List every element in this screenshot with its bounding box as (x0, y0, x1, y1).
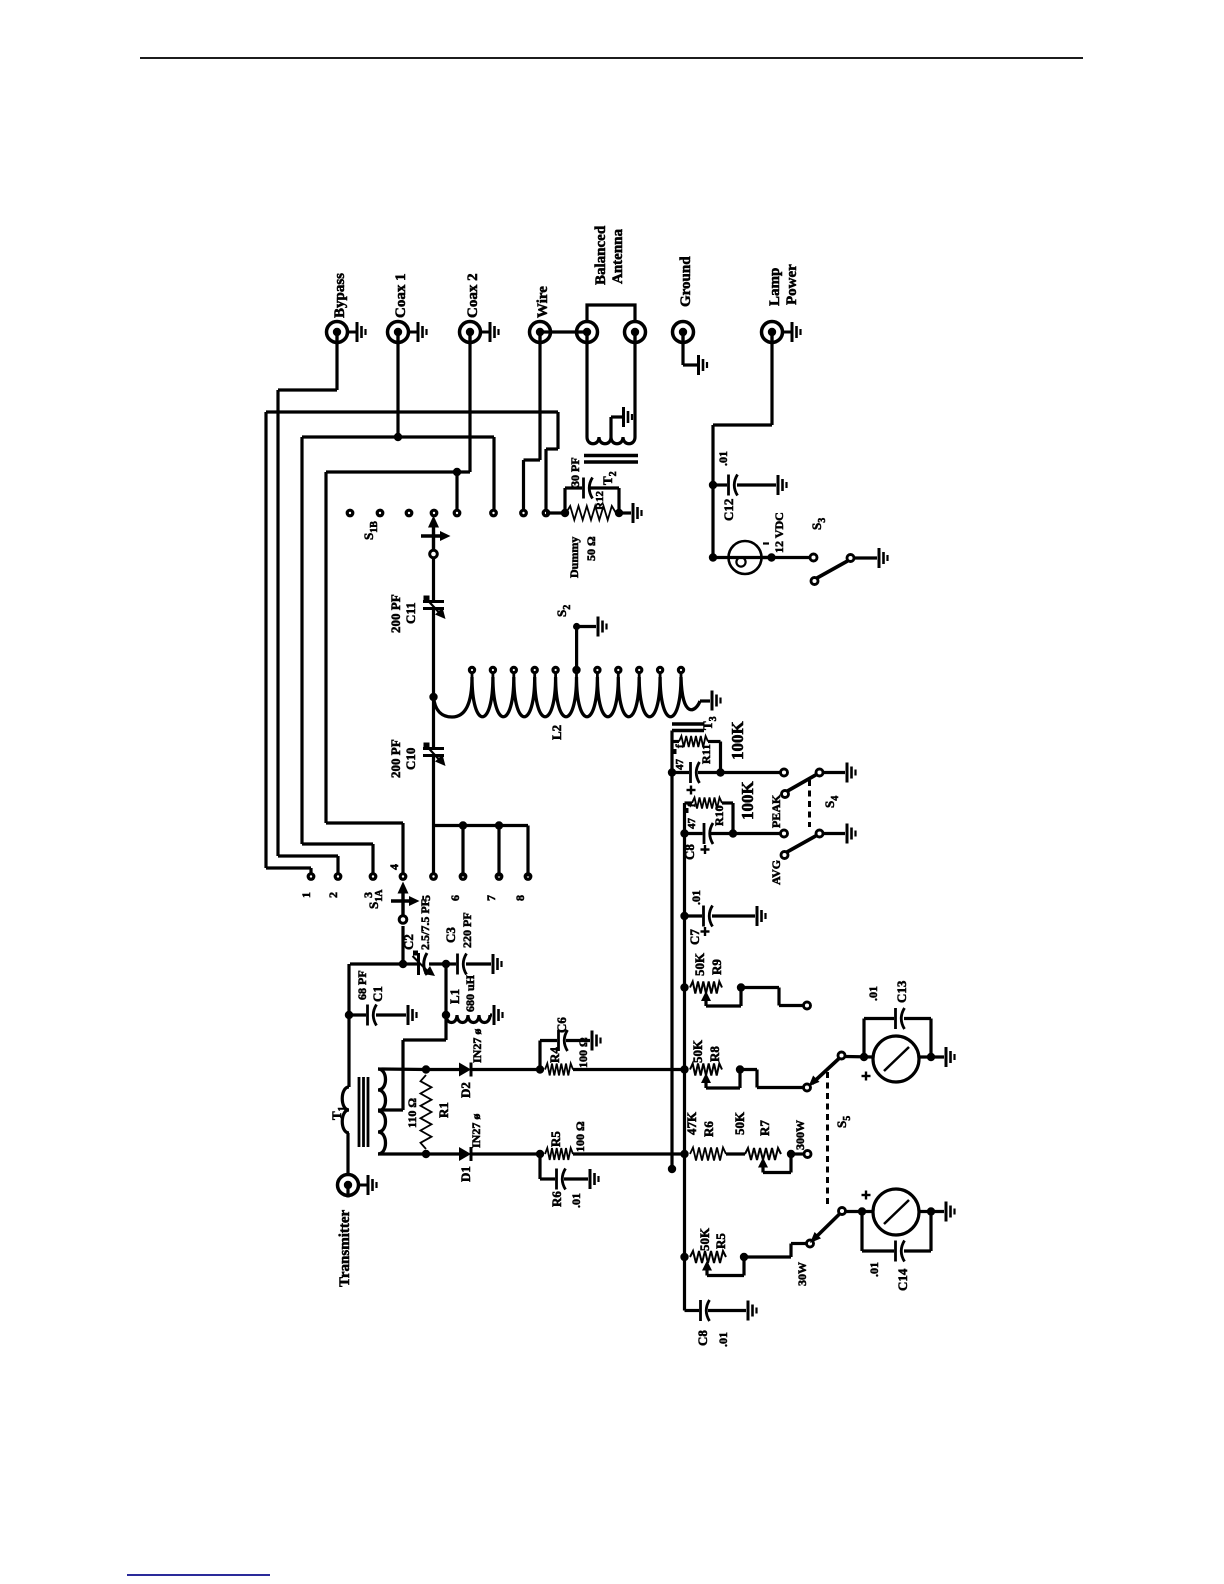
node dummy left (561, 509, 569, 517)
ground at C7 (756, 906, 759, 926)
svg-text:R5: R5 (548, 1131, 563, 1147)
capacitor 47uf peak (689, 762, 692, 783)
svg-text:R12: R12 (594, 491, 606, 510)
label plus meter2 (862, 1194, 871, 1196)
meter M2 (873, 1189, 919, 1235)
svg-text:50 Ω: 50 Ω (584, 536, 598, 561)
wire S1A 5-8 common bus (434, 824, 529, 827)
wire L2 end to ground (700, 699, 710, 702)
svg-text:30 PF: 30 PF (568, 457, 582, 487)
svg-text:PEAK: PEAK (769, 794, 783, 828)
ground at C3 (492, 954, 495, 974)
svg-text:Ground: Ground (678, 256, 694, 307)
node D2/R4/C6 (536, 1065, 544, 1073)
transformer T2 core (584, 454, 638, 457)
transformer T3 core (672, 722, 704, 725)
potentiometer R7 50K (745, 1148, 781, 1160)
svg-text:110 Ω: 110 Ω (405, 1098, 419, 1128)
svg-text:L2: L2 (549, 725, 564, 740)
svg-text:50K: 50K (690, 1039, 705, 1063)
bottom-left blue underline (127, 1574, 270, 1576)
switch S3 contact (810, 554, 817, 561)
wire S1B-8 to dummy load (546, 511, 565, 514)
node C14 left (858, 1207, 866, 1215)
svg-text:.01: .01 (569, 1193, 583, 1208)
switch S4 avg contact (781, 830, 788, 837)
wire bus net1 (S1B-8 / dummy to S1A-1) (266, 410, 558, 413)
svg-text:R5: R5 (713, 1233, 728, 1249)
wire L1 node jog to T1 center tap (403, 1038, 446, 1041)
node C7 (680, 912, 688, 920)
svg-text:2: 2 (326, 892, 340, 898)
node R6 47K (680, 1150, 688, 1158)
capacitor C12 .01 (713, 483, 727, 486)
svg-text:300W: 300W (793, 1120, 807, 1150)
transformer T1 secondary (378, 1069, 386, 1154)
capacitor C7 .01 (685, 914, 703, 917)
svg-text:Balanced: Balanced (593, 225, 609, 285)
wire R8 output to S5 (740, 1068, 757, 1071)
node S1A-7 branch (495, 821, 503, 829)
connector J1 Bypass (335, 332, 338, 345)
switch S5 meter1 throw contact (804, 1084, 811, 1091)
svg-text:12 VDC: 12 VDC (772, 512, 786, 553)
node S1A-6 branch (459, 821, 467, 829)
svg-text:R10: R10 (712, 805, 726, 826)
ground at S3 (878, 548, 881, 568)
capacitor C1 68 PF (349, 1013, 366, 1016)
switch S1B wiper (430, 550, 438, 558)
svg-text:T3: T3 (700, 716, 719, 730)
svg-text:68 PF: 68 PF (355, 970, 369, 1000)
svg-text:AVG: AVG (769, 860, 783, 885)
node lamp right (767, 553, 775, 561)
wire S5 to meter2 (846, 1210, 874, 1213)
wire S1B wiper line down (432, 558, 435, 601)
resistor R12 dummy 50 ohm (566, 506, 616, 520)
wire S1A wiper to C2 node (401, 926, 404, 964)
wire dummy to ground (619, 511, 631, 514)
svg-text:47K: 47K (684, 1111, 699, 1135)
node S1B-5 branch (453, 468, 461, 476)
capacitor C10 200 PF variable (423, 747, 444, 750)
wire bus B down (683, 834, 686, 1311)
wire meter1 to ground (919, 1055, 944, 1058)
node C12 (709, 481, 717, 489)
svg-text:7: 7 (484, 895, 498, 901)
svg-text:S4: S4 (822, 796, 841, 808)
svg-text:Antenna: Antenna (610, 228, 626, 284)
capacitor C14 .01 loop (860, 1212, 863, 1252)
svg-text:R9: R9 (709, 959, 724, 975)
resistor R1 110 ohm (421, 1075, 432, 1149)
wire balanced bridge arch (587, 305, 635, 322)
switch S4 avg arm (781, 852, 788, 859)
svg-text:IN27 ø: IN27 ø (470, 1029, 484, 1063)
wire Ground jack to ground (681, 332, 684, 365)
wire meter2 to ground (919, 1210, 944, 1213)
diode D2 IN27 (459, 1063, 471, 1077)
wire R5 output to S5 (744, 1255, 791, 1258)
wire C8 .01 branch (685, 1309, 700, 1312)
svg-text:2.5/7.5 PF: 2.5/7.5 PF (418, 899, 432, 950)
svg-text:D1: D1 (458, 1166, 473, 1182)
svg-text:.01: .01 (866, 986, 880, 1001)
wire bus A from T3 (670, 731, 673, 1170)
connector J7 Ground (681, 332, 684, 345)
wire S4 peak to ground (824, 771, 846, 774)
resistor R6 47K (690, 1148, 726, 1161)
capacitor R6 .01 (555, 1169, 558, 1190)
ground at meter2 (945, 1202, 948, 1222)
wire bus Bypass to S1A-2 (276, 390, 279, 856)
node C13 right (927, 1053, 935, 1061)
svg-text:Coax 1: Coax 1 (393, 273, 409, 318)
svg-text:200 PF: 200 PF (388, 594, 403, 633)
node C13 left (860, 1053, 868, 1061)
node R5 50K (680, 1253, 688, 1261)
wire 30PF branch rect (563, 488, 566, 513)
connector Transmitter (346, 1185, 349, 1198)
switch S5 meter2 arm (839, 1208, 846, 1215)
svg-text:R1: R1 (436, 1102, 451, 1118)
svg-text:6: 6 (448, 895, 462, 901)
wire C6 branch (538, 1041, 541, 1070)
ground at L2 end (711, 691, 714, 711)
potentiometer R9 50K (690, 982, 722, 994)
ground at R6 cap (589, 1169, 592, 1189)
node L2 top (429, 693, 437, 701)
wire T2 center tap to ground (609, 417, 612, 437)
connector J4 Wire (538, 332, 541, 345)
capacitor C8 .01 (699, 1300, 702, 1321)
potentiometer R5 50K (690, 1251, 726, 1263)
wire Coax2 down (468, 332, 471, 472)
svg-text:.01: .01 (867, 1262, 881, 1277)
wire Wire-jack to Balanced jack link (540, 330, 587, 333)
svg-text:Transmitter: Transmitter (337, 1209, 353, 1287)
wire C3 node down to T1 tap (444, 964, 447, 1040)
node R9 (680, 983, 688, 991)
wire C11 to L2 node (432, 609, 435, 748)
connector J5 Balanced Antenna A (585, 332, 588, 345)
svg-text:C11: C11 (403, 602, 418, 624)
label plus meter1 (862, 1075, 871, 1077)
wire T1 secondary top lead (378, 1067, 426, 1071)
node Coax1 on net2 (394, 433, 402, 441)
wire S3 to ground (855, 556, 878, 559)
svg-text:C14: C14 (895, 1268, 910, 1291)
connector J6 Balanced Antenna B (633, 332, 636, 345)
wire R5 to bus (573, 1152, 685, 1155)
svg-text:R11: R11 (699, 744, 713, 764)
svg-text:C1: C1 (370, 986, 385, 1002)
ground at T2 center tap (622, 407, 625, 427)
svg-text:Coax 2: Coax 2 (465, 273, 481, 318)
svg-text:100 Ω: 100 Ω (573, 1121, 587, 1152)
wire R9 output (741, 986, 779, 989)
wire bus net2 (Coax1 / S1B-6 to S1A-3) (302, 435, 494, 438)
svg-text:T2: T2 (600, 471, 619, 485)
ground at C6 (591, 1031, 594, 1051)
svg-text:100K: 100K (728, 721, 747, 761)
svg-text:R7: R7 (757, 1120, 772, 1136)
capacitor C2 2.5/7.5 PF variable (417, 953, 420, 975)
node R8 (680, 1065, 688, 1073)
svg-text:D2: D2 (458, 1082, 473, 1098)
svg-text:Bypass: Bypass (332, 273, 348, 318)
node dummy right (615, 509, 623, 517)
resistor R5 100 ohm (545, 1148, 573, 1160)
wire S5 to meter1 (846, 1055, 874, 1059)
svg-text:Wire: Wire (535, 286, 551, 318)
ground at C12 (777, 475, 780, 495)
svg-text:S3: S3 (809, 518, 828, 530)
svg-text:f: f (674, 744, 686, 748)
svg-text:47: 47 (674, 759, 686, 771)
inductor L2 with taps (434, 677, 701, 717)
svg-text:S2: S2 (554, 605, 573, 617)
terminal R7 300W (804, 1151, 811, 1158)
terminal R9 output (804, 1002, 811, 1009)
svg-text:.01: .01 (716, 451, 730, 466)
top horizontal rule (140, 57, 1083, 59)
node R10 row right (729, 829, 737, 837)
wire bus net3 (Coax2 / S1B-5 to S1A-4) (326, 470, 470, 473)
switch S1B contact row (346, 509, 355, 518)
wire R4 to bus (573, 1068, 685, 1071)
svg-text:100K: 100K (738, 781, 757, 821)
svg-text:C12: C12 (721, 499, 736, 521)
wire R6 cap branch (538, 1154, 541, 1179)
diode D1 IN27 (459, 1147, 471, 1161)
ground at meter1 (945, 1047, 948, 1067)
svg-text:C10: C10 (403, 748, 418, 770)
svg-text:S5: S5 (834, 1116, 853, 1128)
wire Lamp Power down to C12 node (770, 332, 773, 425)
ground at dummy load (632, 503, 635, 523)
svg-text:R6: R6 (701, 1121, 716, 1137)
switch S4 gang dashed link (808, 780, 811, 827)
svg-text:Lamp: Lamp (767, 268, 783, 306)
svg-text:S1B: S1B (361, 521, 380, 540)
capacitor C6 (557, 1030, 560, 1051)
svg-text:C2: C2 (401, 934, 416, 950)
switch S4 peak contact (781, 769, 788, 776)
svg-text:30W: 30W (795, 1262, 809, 1286)
svg-text:47: 47 (686, 818, 698, 830)
svg-text:50K: 50K (732, 1111, 747, 1135)
wire Bypass to bus (335, 332, 338, 390)
svg-text:8: 8 (513, 895, 527, 901)
svg-text:C3: C3 (443, 927, 458, 943)
node C14 right (927, 1207, 935, 1215)
node R11 row left (668, 768, 676, 776)
wire C2 row (403, 962, 417, 965)
svg-text:220 PF: 220 PF (460, 912, 474, 948)
wire D2 to node (471, 1068, 540, 1071)
ground at C8 .01 (747, 1301, 750, 1321)
node R1 bottom (422, 1150, 430, 1158)
capacitor C3 220 PF (446, 962, 456, 965)
switch S1A wiper (399, 916, 407, 924)
node D1/R5/R6 (536, 1150, 544, 1158)
svg-text:Power: Power (784, 264, 800, 305)
switch S5 meter1 arm (838, 1052, 845, 1059)
svg-text:.01: .01 (716, 1332, 730, 1347)
switch S3 arm (811, 578, 818, 585)
wire lamp to S3 (762, 556, 810, 559)
svg-text:.01: .01 (689, 890, 703, 905)
svg-text:IN27 ø: IN27 ø (469, 1114, 483, 1148)
transformer T1 primary (347, 1015, 350, 1087)
svg-text:C6: C6 (554, 1017, 569, 1033)
switch S5 gang dashed link (826, 1072, 829, 1206)
svg-text:C7: C7 (687, 929, 702, 945)
svg-text:200 PF: 200 PF (388, 739, 403, 778)
ground at S4 avg (846, 824, 849, 844)
node C1 (345, 1011, 353, 1019)
wire T1 secondary bottom lead (378, 1152, 426, 1155)
ground at L1 (493, 1005, 496, 1025)
svg-text:3: 3 (361, 892, 375, 898)
wire R10 row (685, 832, 703, 835)
svg-text:L1: L1 (447, 989, 462, 1004)
wire R11 row (672, 771, 689, 774)
wire R7 output (791, 1152, 804, 1155)
ground at Ground jack (697, 355, 700, 375)
node C2 left (399, 960, 407, 968)
node lamp left (709, 553, 717, 561)
wire Wire-jack jog to S1B contact 7 (538, 332, 541, 460)
resistor R4 100 ohm (545, 1064, 573, 1076)
lamp 12 VDC (713, 556, 772, 559)
capacitor C8 47uf avg (703, 823, 706, 844)
switch S2 tap select (575, 627, 578, 672)
svg-text:50K: 50K (697, 1227, 712, 1251)
transformer T2 antenna winding (585, 332, 588, 437)
svg-text:R8: R8 (707, 1046, 722, 1062)
svg-text:C8: C8 (695, 1330, 710, 1346)
node R11 row right (716, 768, 724, 776)
svg-text:1: 1 (299, 892, 313, 898)
svg-text:Dummy: Dummy (567, 537, 581, 578)
capacitor C13 .01 loop (862, 1019, 865, 1058)
switch S4 peak arm (782, 791, 789, 798)
wire C2 node to C1 bus (350, 962, 403, 965)
transformer T1 core (358, 1077, 361, 1147)
svg-text:R6: R6 (549, 1191, 564, 1207)
svg-text:50K: 50K (692, 952, 707, 976)
svg-text:4: 4 (387, 864, 401, 870)
connector J8 Lamp Power (770, 332, 773, 345)
switch S5 meter2 throw contact (807, 1240, 814, 1247)
capacitor 30 PF (582, 478, 585, 499)
svg-text:C13: C13 (894, 980, 909, 1003)
node C2/C3/L1 (442, 960, 450, 968)
node bus A end (668, 1165, 676, 1173)
connector J2 Coax 1 (396, 332, 399, 345)
capacitor C11 200 PF variable (423, 600, 444, 603)
ground at C1 (407, 1005, 410, 1025)
switch S1A contact row (307, 872, 316, 881)
connector J3 Coax 2 (468, 332, 471, 345)
node R1 top (422, 1065, 430, 1073)
resistor R10 (685, 801, 693, 804)
svg-text:680 uH: 680 uH (463, 974, 477, 1012)
potentiometer R8 50K (690, 1064, 722, 1076)
meter M1 (873, 1036, 919, 1082)
node L1 (442, 1011, 450, 1019)
resistor R11 (672, 740, 679, 743)
wire S4 avg to ground (824, 832, 846, 835)
wire Coax1 down (396, 332, 399, 437)
wire D1 to node (471, 1152, 540, 1155)
ground at S2 (597, 617, 600, 637)
node R10 row left (680, 829, 688, 837)
inductor L1 680 uH (446, 1015, 490, 1023)
svg-text:f: f (686, 803, 698, 807)
wire C10 down to S1A bus (432, 756, 435, 877)
ground at S4 peak (846, 763, 849, 783)
wire R6 to R7 (726, 1152, 745, 1155)
